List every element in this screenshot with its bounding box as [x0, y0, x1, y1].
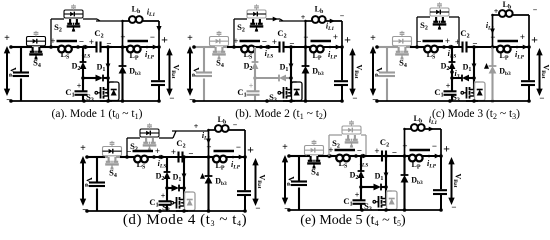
label D1 (mode c)	[463, 63, 472, 74]
svg-text:+: +	[161, 192, 166, 201]
wire C2 right (mode b)	[284, 45, 296, 49]
wire bottom rail right (mode d)	[176, 210, 245, 212]
polarity marks LP (mode b)	[303, 32, 338, 42]
wire LS to C2 (mode c)	[444, 45, 461, 49]
svg-text:D1: D1	[463, 63, 472, 74]
polarity marks LP (mode c)	[490, 32, 525, 42]
svg-text:+: +	[282, 142, 288, 153]
label S4 (mode b)	[216, 58, 224, 70]
polarity marks LS (mode b)	[233, 36, 267, 47]
polarity marks LS (mode c)	[416, 36, 450, 47]
wire S2 bridge (mode c)	[449, 17, 459, 47]
transistor S4 (mode a)	[29, 47, 44, 60]
transistor S4 (mode d)	[105, 157, 120, 170]
svg-text:+: +	[272, 37, 277, 47]
svg-text:+: +	[4, 33, 10, 44]
svg-text:+: +	[520, 32, 525, 42]
svg-text:−: −	[340, 12, 345, 21]
current iLP (mode e)	[427, 154, 440, 170]
wire S2 riser (mode d)	[127, 138, 140, 157]
label S3 (mode b)	[269, 92, 277, 104]
inductor LP (mode b)	[306, 41, 343, 52]
inductor LS (mode a)	[56, 41, 80, 52]
inductor LS (mode c)	[422, 41, 446, 52]
label D1 (mode d)	[173, 173, 182, 184]
svg-text:C2: C2	[176, 138, 185, 150]
voltage VBat (mode d)	[247, 143, 266, 214]
wire S2 bridge (mode e)	[361, 135, 366, 156]
wire left rail (mode a)	[9, 45, 21, 103]
diode Db3 (mode b)	[302, 47, 310, 103]
wire bottom rail (mode a)	[11, 99, 112, 103]
polarity marks LS (mode e)	[328, 145, 362, 156]
inductor LP (mode d)	[209, 151, 246, 162]
capacitor Cbat (mode b)	[334, 81, 348, 85]
wire top rail left (mode d)	[97, 156, 105, 158]
label LS (mode a)	[61, 50, 70, 61]
wire bottom rail (mode d)	[87, 209, 188, 213]
capacitor C1 (mode b)	[247, 78, 260, 101]
svg-text:+: +	[328, 145, 333, 155]
label S4 (mode a)	[33, 58, 41, 70]
wire rail to LS (mode c)	[410, 45, 422, 49]
wire S2 riser (mode a)	[51, 19, 64, 47]
wire output branch (mode a)	[157, 45, 161, 103]
diode Db3 (mode a)	[119, 47, 127, 103]
svg-text:+: +	[402, 141, 407, 151]
capacitor C2 (mode b)	[261, 42, 284, 53]
snubber box of S2 (mode b)	[247, 4, 266, 18]
svg-text:−: −	[150, 32, 155, 42]
wire bridge to node C (mode a)	[96, 20, 123, 22]
capacitor C2 (mode c)	[444, 42, 467, 53]
svg-text:iLP: iLP	[145, 50, 155, 61]
label D2 (mode c)	[441, 62, 450, 73]
svg-text:+: +	[194, 122, 199, 131]
polarity marks Lb (mode c)	[494, 6, 538, 17]
label LP (mode b)	[312, 51, 321, 62]
wire LS to C2 (mode d)	[154, 155, 171, 159]
wire S2 riser (mode b)	[234, 19, 247, 47]
transistor S3 (mode d)	[171, 188, 185, 209]
svg-text:+: +	[344, 33, 351, 47]
svg-text:−: −	[451, 202, 456, 212]
snubber box of S2 (mode c)	[430, 2, 449, 16]
svg-text:S2: S2	[54, 22, 62, 34]
voltage VBat (mode c)	[531, 33, 550, 104]
transistor S4 (mode c)	[395, 47, 410, 60]
current iL1 (mode e)	[429, 116, 438, 132]
svg-text:iLS: iLS	[158, 159, 167, 170]
label C2 (mode b)	[277, 28, 286, 40]
polarity marks LS (mode d)	[126, 146, 160, 157]
svg-text:S4: S4	[216, 58, 224, 70]
svg-text:C2: C2	[460, 28, 469, 40]
label C1 (mode d)	[149, 197, 158, 209]
svg-text:−: −	[169, 93, 174, 103]
label Lb (mode c)	[503, 0, 512, 11]
label C1 (mode b)	[237, 87, 246, 99]
diode Db3 (mode c)	[489, 47, 497, 103]
wire bottom rail right (mode c)	[466, 100, 529, 102]
capacitor Cin (mode e)	[291, 182, 307, 186]
diode D1 (mode c)	[450, 75, 474, 82]
diode D2 (mode e)	[358, 156, 365, 187]
capacitor C1 (mode d)	[159, 188, 172, 211]
svg-text:Lb: Lb	[132, 5, 141, 16]
capacitor Cbat (mode a)	[151, 81, 165, 85]
svg-text:+: +	[370, 33, 376, 44]
capacitor C1 (mode a)	[75, 78, 88, 101]
label Db3 (mode b)	[312, 67, 324, 78]
label D1 (mode e)	[375, 172, 384, 183]
label Db3 (mode a)	[129, 67, 141, 78]
wire mid vertical (mode e)	[384, 156, 389, 189]
inductor LS (mode d)	[132, 151, 156, 162]
wire top rail left (mode c)	[387, 46, 395, 48]
svg-text:(c) Mode 3 (t2 ~ t3): (c) Mode 3 (t2 ~ t3)	[432, 108, 520, 121]
polarity marks LP (mode e)	[402, 141, 437, 151]
svg-text:−: −	[352, 93, 357, 103]
svg-text:+: +	[301, 13, 306, 22]
diode D2 (mode d)	[164, 157, 171, 188]
snubber box of S2 (mode d)	[140, 123, 159, 137]
polarity marks Lb (mode b)	[301, 12, 345, 23]
wire bottom rail (mode b)	[194, 99, 295, 103]
svg-text:Lb: Lb	[503, 0, 512, 11]
diode Db3 (mode e)	[401, 156, 409, 212]
svg-text:S4: S4	[311, 167, 319, 179]
svg-text:−: −	[262, 37, 267, 47]
svg-text:iLS: iLS	[265, 49, 274, 60]
label LS (mode c)	[427, 50, 436, 61]
current i3 (mode c)	[450, 69, 460, 80]
svg-text:D2: D2	[156, 172, 165, 183]
label D2 (mode d)	[156, 172, 165, 183]
polarity marks C2 (mode d)	[171, 147, 194, 159]
svg-text:−: −	[533, 6, 538, 15]
snubber box of S4 (mode d)	[103, 141, 122, 156]
wire S2 bridge (mode d)	[159, 131, 176, 138]
current iLS (mode a)	[82, 45, 91, 60]
snubber box of S2 (mode e)	[342, 120, 361, 134]
wire rail to LS (mode e)	[322, 154, 334, 159]
svg-text:−: −	[236, 142, 241, 152]
svg-text:C1: C1	[65, 87, 74, 99]
snubber box of S3 (mode a)	[108, 82, 119, 101]
capacitor Cin (mode a)	[13, 73, 29, 77]
inductor Lb (mode e)	[403, 124, 441, 156]
label C2 (mode a)	[94, 28, 103, 40]
svg-text:−: −	[79, 37, 84, 47]
wire S2 bridge (mode b)	[266, 17, 283, 22]
svg-text:C2: C2	[277, 28, 286, 40]
label S2 (mode b)	[237, 22, 245, 34]
wire top rail left (mode b)	[204, 46, 212, 48]
label LP (mode a)	[129, 51, 138, 62]
label D2 (mode b)	[244, 62, 253, 73]
svg-text:+: +	[187, 33, 193, 44]
wire S2 riser (mode c)	[417, 17, 430, 47]
label S2 (mode e)	[332, 138, 340, 150]
transistor S2 (mode d)	[143, 138, 157, 151]
wire bottom rail (mode e)	[289, 208, 390, 212]
current arrow Db3 (mode c)	[484, 63, 489, 69]
polarity marks C2 (mode b)	[272, 37, 295, 49]
svg-text:−: −	[255, 203, 260, 213]
inductor LP (mode c)	[493, 41, 530, 52]
wire bottom rail right (mode b)	[283, 100, 342, 102]
wire mid vertical (mode b)	[289, 47, 294, 80]
svg-text:VBat: VBat	[540, 64, 550, 78]
current iLS (mode c)	[448, 45, 457, 60]
voltage source Vd of mode d (mode d)	[80, 143, 95, 216]
polarity marks LS (mode a)	[50, 36, 84, 47]
svg-text:−: −	[357, 146, 362, 156]
capacitor C1 (mode c)	[444, 78, 457, 101]
snubber box of S3 (mode c)	[474, 82, 485, 101]
svg-text:−: −	[126, 147, 131, 157]
wire left rail (mode e)	[287, 154, 299, 212]
svg-text:+: +	[206, 142, 211, 152]
label C2 (mode d)	[176, 138, 185, 150]
polarity marks C2 (mode c)	[455, 37, 478, 49]
wire LS to C2 (mode b)	[261, 45, 278, 49]
snubber box of S4 (mode b)	[210, 31, 229, 46]
capacitor Cbat (mode c)	[521, 81, 535, 85]
diode D2 (mode b)	[252, 47, 259, 78]
svg-text:C1: C1	[434, 87, 443, 99]
svg-text:Db3: Db3	[499, 67, 511, 78]
label S4 (mode e)	[311, 167, 319, 179]
polarity marks Lb (mode d)	[194, 121, 238, 132]
wire C2 right (mode e)	[384, 154, 390, 158]
svg-text:+: +	[333, 32, 338, 42]
label Lb (mode b)	[315, 5, 324, 16]
svg-text:iLP: iLP	[427, 159, 437, 170]
diode D1 (mode a)	[81, 75, 108, 82]
svg-text:−: −	[233, 121, 238, 130]
label D1 (mode b)	[280, 63, 289, 74]
svg-text:D1: D1	[97, 63, 106, 74]
inductor Lb (mode d)	[207, 125, 245, 157]
label D2 (mode e)	[350, 171, 359, 182]
label S3 (mode d)	[162, 202, 170, 214]
svg-text:+: +	[494, 7, 499, 16]
wire mid vertical (mode c)	[472, 47, 477, 80]
svg-text:VBat: VBat	[353, 64, 364, 78]
svg-text:+: +	[155, 146, 160, 156]
wire C2 right (mode c)	[467, 45, 479, 49]
current arrow Db3 (mode d)	[200, 173, 205, 179]
transistor S4 (mode e)	[307, 156, 322, 169]
wire S2 riser (mode e)	[329, 135, 342, 156]
polarity marks LP (mode a)	[120, 32, 155, 42]
transistor S2 (mode c)	[433, 17, 447, 30]
polarity marks C2 (mode a)	[89, 37, 112, 49]
voltage source Vd of mode b (mode b)	[187, 33, 202, 106]
svg-text:C2: C2	[380, 137, 389, 149]
capacitor C2 (mode d)	[154, 152, 183, 163]
svg-text:S2: S2	[237, 22, 245, 34]
diode Db3 (mode d)	[205, 157, 213, 213]
label C1 (mode c)	[434, 87, 443, 99]
svg-text:+: +	[531, 33, 538, 47]
diode D1 (mode e)	[359, 184, 386, 191]
svg-text:VBat: VBat	[256, 174, 267, 188]
label S2 (mode a)	[54, 22, 62, 34]
wire mid vertical (mode d)	[182, 157, 187, 190]
polarity marks C2 (mode e)	[374, 146, 397, 158]
voltage VBat (mode b)	[344, 33, 363, 104]
label S3 (mode a)	[86, 92, 94, 104]
diode D1 (mode b)	[253, 75, 291, 82]
svg-text:(e) Mode 5 (t4 ~ t5): (e) Mode 5 (t4 ~ t5)	[300, 213, 406, 228]
current iLP (mode b)	[328, 45, 341, 61]
diode D1 (mode d)	[165, 185, 184, 192]
wire left rail (mode d)	[85, 155, 97, 213]
svg-text:−: −	[490, 32, 495, 42]
transistor S3 (mode e)	[373, 187, 387, 208]
wire rail to LS (mode b)	[227, 45, 239, 49]
svg-text:Db3: Db3	[129, 67, 141, 78]
svg-text:(b). Mode 2 (t1 ~ t2): (b). Mode 2 (t1 ~ t2)	[235, 108, 327, 121]
svg-text:−: −	[303, 32, 308, 42]
svg-text:Lb: Lb	[218, 115, 227, 126]
voltage VBat (mode a)	[161, 33, 180, 104]
wire top rail left (mode e)	[299, 155, 307, 157]
label LP (mode d)	[215, 161, 224, 172]
capacitor C2 (mode e)	[356, 151, 386, 162]
svg-text:+: +	[247, 143, 254, 157]
svg-text:C1: C1	[237, 87, 246, 99]
svg-text:+: +	[233, 36, 238, 46]
wire left rail (mode b)	[192, 45, 204, 103]
svg-text:+: +	[455, 37, 460, 47]
transistor S4 (mode b)	[212, 47, 227, 60]
svg-text:S4: S4	[109, 168, 117, 180]
label D2 (mode a)	[72, 62, 81, 73]
transistor S2 (mode b)	[250, 19, 264, 32]
svg-text:D1: D1	[280, 63, 289, 74]
current iLP (mode a)	[145, 45, 158, 61]
wire output branch (mode b)	[340, 45, 344, 103]
svg-text:iLP: iLP	[515, 50, 525, 61]
svg-text:Lb: Lb	[315, 5, 324, 16]
transistor S3 (mode c)	[461, 78, 475, 99]
capacitor Cbat (mode d)	[237, 191, 251, 195]
current iL1 (mode a)	[147, 8, 162, 33]
label C1 (mode e)	[343, 196, 352, 208]
current iLS (mode d)	[158, 155, 167, 170]
svg-text:+: +	[77, 82, 82, 91]
svg-text:+: +	[374, 146, 379, 156]
capacitor C2 (mode a)	[78, 42, 101, 53]
wire S2 bridge (mode a)	[83, 19, 100, 21]
current iL1 (mode b)	[326, 19, 335, 32]
label LP (mode e)	[411, 160, 420, 171]
label Lb (mode d)	[218, 115, 227, 126]
wire C2 to node C (mode c)	[466, 45, 494, 49]
wire bottom rail right (mode a)	[100, 100, 159, 102]
label S3 (mode c)	[452, 92, 460, 104]
wire output branch (mode c)	[527, 45, 531, 103]
voltage VBat (mode e)	[443, 142, 462, 213]
svg-text:−: −	[432, 141, 437, 151]
inductor Lb (mode c)	[491, 10, 529, 47]
inductor LS (mode e)	[334, 150, 358, 161]
svg-text:C2: C2	[94, 28, 103, 40]
svg-text:+: +	[50, 36, 55, 46]
inductor Lb (mode a)	[121, 16, 159, 47]
wire bottom rail right (mode e)	[378, 209, 441, 211]
inductor LP (mode a)	[123, 41, 160, 52]
current iLS (mode e)	[360, 154, 369, 169]
label Db3 (mode c)	[499, 67, 511, 78]
voltage source Vd of mode c (mode c)	[370, 33, 385, 106]
label Db3 (mode d)	[215, 177, 227, 188]
capacitor Cin (mode c)	[379, 73, 395, 77]
svg-text:Db3: Db3	[215, 177, 227, 188]
current iLP (mode c)	[515, 45, 528, 61]
capacitor Cin (mode b)	[196, 73, 212, 77]
label S2 (mode c)	[420, 20, 428, 32]
wire bridge to node C (mode b)	[279, 20, 306, 22]
svg-text:+: +	[80, 143, 86, 154]
diode D2 (mode a)	[80, 47, 87, 78]
svg-text:Db3: Db3	[312, 67, 324, 78]
transistor S2 (mode a)	[67, 19, 81, 32]
wire left rail (mode c)	[375, 45, 387, 103]
svg-text:−: −	[539, 93, 544, 103]
svg-text:VBat: VBat	[170, 64, 181, 78]
svg-text:Db3: Db3	[411, 176, 423, 187]
snubber box of S3 (mode d)	[184, 192, 195, 211]
svg-text:S2: S2	[420, 20, 428, 32]
snubber box of S4 (mode c)	[393, 31, 412, 46]
polarity marks LP (mode d)	[206, 142, 241, 152]
wire rail to LS (mode a)	[44, 45, 56, 49]
svg-text:iL1: iL1	[147, 8, 156, 19]
voltage source Vd of mode a (mode a)	[4, 33, 19, 106]
svg-text:Lb: Lb	[414, 114, 423, 125]
svg-text:S4: S4	[399, 58, 407, 70]
wire LS to C2 (mode e)	[356, 154, 373, 158]
svg-text:iLP: iLP	[231, 160, 241, 171]
label S2 (mode d)	[130, 141, 138, 153]
svg-text:+: +	[445, 36, 450, 46]
svg-text:+: +	[161, 33, 168, 47]
svg-text:iLP: iLP	[328, 50, 338, 61]
wire output branch (mode d)	[243, 155, 247, 213]
snubber box of S4 (mode a)	[27, 31, 46, 46]
label LP (mode c)	[499, 51, 508, 62]
transistor S3 (mode a)	[95, 78, 109, 99]
svg-text:+: +	[355, 191, 360, 200]
wire output branch (mode e)	[439, 154, 443, 212]
svg-text:C1: C1	[149, 197, 158, 209]
snubber box of S4 (mode e)	[305, 140, 324, 155]
svg-text:+: +	[443, 142, 450, 156]
svg-text:D2: D2	[350, 171, 359, 182]
wire mid vertical (mode a)	[106, 47, 111, 80]
svg-text:C1: C1	[343, 196, 352, 208]
inductor Lb (mode b)	[304, 16, 342, 47]
wire top rail left (mode a)	[21, 46, 29, 48]
wire bottom rail (mode c)	[377, 99, 478, 103]
snubber box of S3 (mode e)	[386, 191, 397, 210]
capacitor Cin (mode d)	[89, 183, 105, 187]
